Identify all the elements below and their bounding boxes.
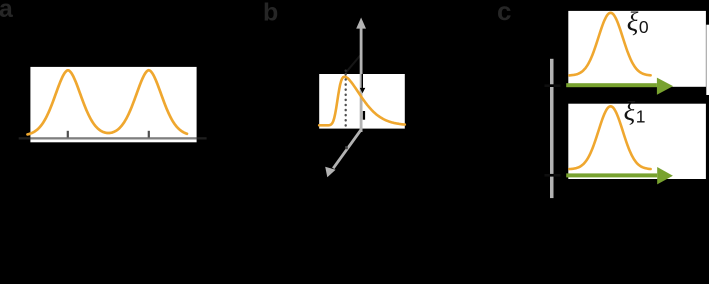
panel b: dotted line dots above panel [345,71,347,74]
panel b: diagonal axis arrow shaft [333,130,361,169]
panel b: dotted line dot on diagonal shaft [345,146,348,149]
panel b: skewed peak curve [319,77,405,126]
panel c row 1: gaussian curve [569,106,650,169]
clipped white strip at right edge [706,25,709,95]
panel b: black dash mark [363,111,365,120]
panel a: x-axis line [30,137,196,139]
svg-text:0: 0 [639,17,649,37]
panel c: dark wire stub 2 [545,174,561,177]
svg-text:1: 1 [636,106,646,126]
panel b: black annotation arrowhead [360,88,366,93]
svg-text:ξ: ξ [627,7,639,37]
panel b: vertical axis arrowhead [356,18,366,29]
panel c row 1: green axis arrow shaft [566,173,657,177]
svg-text:c: c [497,0,511,26]
panel a: double-gaussian curve [28,70,188,134]
panel c row 0: green axis arrowhead [657,78,673,95]
panel a: axes background patch [30,67,196,142]
panel b: vertical axis arrow shaft [360,28,363,133]
svg-text:ξ: ξ [624,96,636,126]
panel b: diagonal axis arrowhead [325,167,335,177]
panel c row 0: axes background patch [568,11,706,87]
panel a: x-axis dark stub left [19,137,31,139]
panel c: black wire tick 2 on gray line [550,174,554,177]
panel b: black annotation arrow line [362,74,363,88]
svg-text:b: b [263,0,278,26]
panel c row 1: axes background patch [568,104,706,179]
panel c row 0: gaussian curve [569,13,650,76]
panel a: x-axis dark stub right [197,137,207,139]
panel b: axes background patch [319,74,405,129]
panel c: dark wire stub 1 [545,84,561,87]
panel a: tick mark 2 [148,131,150,138]
panel b: dotted projection line [345,74,347,128]
panel c row 0: green axis arrow shaft [566,83,657,87]
panel c row 1: green axis arrowhead [657,167,673,184]
panel b: faint annotation elbow over black [346,56,361,73]
panel c: black wire tick 1 on gray line [550,84,554,87]
svg-text:a: a [0,0,14,23]
panel a: tick mark 1 [67,131,69,138]
panel c: vertical gray line [550,59,554,198]
